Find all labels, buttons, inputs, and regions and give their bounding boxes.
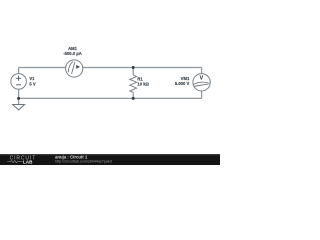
wire V1 bottom to ground node [18, 89, 20, 104]
wire right vertical into VM1 [201, 68, 203, 74]
ground [13, 105, 25, 110]
wire resistor branch bottom [132, 92, 134, 98]
wire resistor branch top [132, 68, 134, 76]
node junction dot at V1 bottom [17, 97, 20, 100]
node junction dot at R1 bottom [132, 97, 135, 100]
resistor R1 [130, 75, 137, 92]
node junction dot at R1 top [132, 66, 135, 69]
svg-text:5.000 V: 5.000 V [175, 81, 190, 86]
svg-text:5 V: 5 V [29, 81, 35, 86]
svg-text:V: V [200, 75, 204, 81]
footer CircuitLab logo [7, 156, 36, 165]
voltmeter VM1 [193, 74, 210, 91]
wire bottom rail [19, 97, 202, 99]
svg-text:LAB: LAB [23, 160, 33, 165]
footer bar [0, 154, 220, 165]
wire VM1 bottom to bottom rail [201, 91, 203, 98]
svg-text:10 kΩ: 10 kΩ [137, 81, 149, 86]
wire top rail left segment [19, 67, 66, 69]
voltage source V1 [11, 74, 27, 90]
wire top rail right segment [83, 67, 202, 69]
wire top-left vertical from V1 to top rail [18, 68, 20, 74]
svg-text:http://circuitlab.com/c6444as7: http://circuitlab.com/c6444as7pakd [55, 159, 112, 163]
svg-text:-500.0 µA: -500.0 µA [63, 51, 81, 56]
ammeter AM1 [66, 60, 83, 77]
